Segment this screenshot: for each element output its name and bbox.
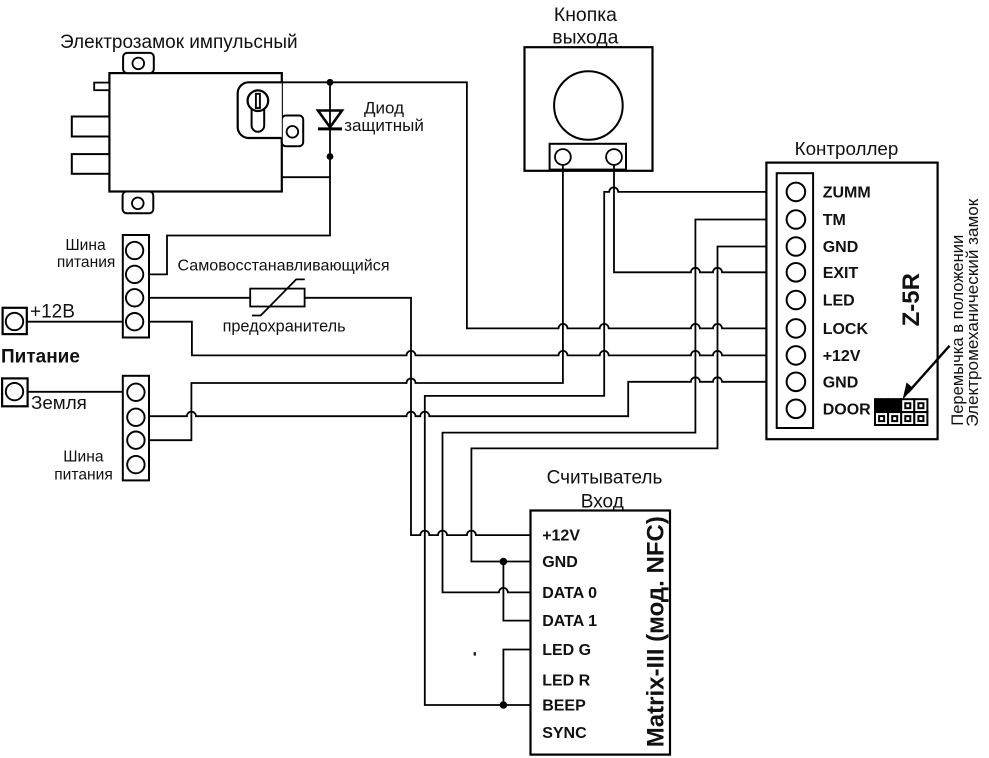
wire: lock bottom to power bus 1 [149, 177, 330, 274]
wire: diode vertical [329, 82, 331, 177]
controller box [766, 163, 937, 440]
svg-text:+12В: +12В [30, 301, 75, 322]
svg-text:Шина: Шина [63, 448, 104, 465]
junction dot reader GND [500, 558, 508, 566]
svg-text:выхода: выхода [552, 26, 618, 48]
svg-text:Вход: Вход [581, 491, 624, 512]
svg-text:Электрозамок импульсный: Электрозамок импульсный [60, 32, 298, 53]
label: Диод защитный [344, 98, 424, 135]
svg-text:+12V: +12V [542, 528, 580, 545]
lock body [109, 73, 281, 191]
svg-text:Питание: Питание [1, 347, 80, 368]
wire: reader GND strap to DATA 1 [503, 562, 530, 621]
svg-text:GND: GND [542, 554, 578, 571]
lock right tab [282, 116, 303, 147]
svg-text:Z-5R: Z-5R [898, 273, 925, 326]
+12V input terminal [3, 308, 27, 334]
button terminal box [550, 144, 626, 170]
junction dot reader BEEP [500, 701, 508, 709]
label: Шина питания (lower) [54, 448, 113, 483]
label: Кнопка выхода [552, 4, 618, 48]
lock left small tab [94, 83, 109, 91]
svg-text:TM: TM [823, 212, 846, 229]
svg-text:защитный: защитный [344, 116, 424, 135]
diode D1 [318, 111, 342, 129]
svg-text:EXIT: EXIT [823, 265, 859, 282]
reader box [531, 511, 671, 755]
svg-text:Шина: Шина [65, 237, 106, 254]
wire: fuse to reader +12V [305, 298, 531, 535]
label: Считыватель Вход [547, 468, 663, 513]
controller terminal labels [823, 185, 871, 419]
svg-text:Считыватель: Считыватель [547, 468, 663, 489]
wire: TM to reader DATA 0 [443, 220, 788, 593]
stray mark [474, 652, 476, 655]
svg-text:Контроллер: Контроллер [795, 138, 899, 159]
wire: lock top to LOCK terminal [282, 82, 787, 328]
svg-text:LED: LED [823, 293, 855, 310]
svg-text:ZUMM: ZUMM [823, 185, 871, 202]
wire: +12V terminal to bus [27, 321, 123, 323]
button circle [554, 71, 623, 140]
fuse F1 body [250, 289, 304, 307]
svg-text:DOOR: DOOR [823, 402, 871, 419]
svg-text:GND: GND [823, 375, 859, 392]
reader terminal labels [542, 528, 597, 742]
button terminal circles [555, 149, 571, 165]
svg-text:Matrix-III (мод. NFC): Matrix-III (мод. NFC) [643, 516, 670, 747]
wire: bus2 GND to exit button [149, 165, 563, 440]
svg-text:предохранитель: предохранитель [223, 318, 346, 336]
keyhole lower lobe [252, 101, 265, 132]
controller terminal strip [777, 173, 813, 428]
jumper cap (closed position) [874, 398, 902, 412]
wire: ZUMM to reader BEEP [425, 187, 787, 705]
svg-text:LOCK: LOCK [823, 321, 869, 338]
svg-text:Земля: Земля [31, 392, 87, 413]
wire: bus +12V to controller +12V [149, 322, 787, 356]
lock bottom mounting tab [123, 192, 154, 214]
wire: bus2 GND to controller GND [149, 377, 787, 416]
lock bolt 1 [72, 117, 110, 137]
wire: Земля to bus 2 [28, 391, 123, 393]
svg-text:DATA 1: DATA 1 [542, 613, 597, 630]
svg-text:питания: питания [57, 254, 116, 271]
svg-text:LED R: LED R [542, 673, 590, 690]
wire: bus to fuse [149, 297, 250, 299]
jumper block [875, 399, 927, 425]
svg-text:SYNC: SYNC [542, 725, 587, 742]
label: Шина питания [57, 237, 116, 271]
wire: GND to reader GND/DATA1 [471, 247, 787, 562]
lock bolt 2 [72, 154, 110, 174]
svg-text:BEEP: BEEP [542, 698, 586, 715]
terminal block 1 [123, 235, 149, 338]
svg-text:LED G: LED G [542, 642, 591, 659]
junction dot [327, 79, 334, 86]
wire: reader LED G strap to BEEP [503, 650, 530, 706]
svg-text:Самовосстанавливающийся: Самовосстанавливающийся [177, 257, 389, 275]
Земля input terminal [2, 378, 28, 406]
jumper arrow [903, 346, 950, 400]
keyhole slot [256, 94, 260, 108]
svg-text:Кнопка: Кнопка [554, 4, 617, 26]
svg-text:Электромеханический замок: Электромеханический замок [964, 198, 982, 427]
lock top mounting tab [123, 53, 154, 73]
key plate [238, 82, 282, 138]
svg-text:Диод: Диод [364, 98, 404, 117]
junction dot [327, 153, 334, 160]
fuse slash [252, 279, 305, 315]
keyhole circle [248, 90, 269, 111]
svg-text:DATA 0: DATA 0 [542, 585, 597, 602]
terminal block 2 [123, 376, 149, 481]
controller terminal circles [787, 183, 806, 419]
svg-text:питания: питания [54, 467, 113, 484]
jumper pins [879, 403, 923, 421]
svg-text:GND: GND [823, 239, 859, 256]
button box [525, 47, 653, 171]
wire: exit button to EXIT [614, 165, 787, 272]
svg-text:+12V: +12V [823, 348, 861, 365]
